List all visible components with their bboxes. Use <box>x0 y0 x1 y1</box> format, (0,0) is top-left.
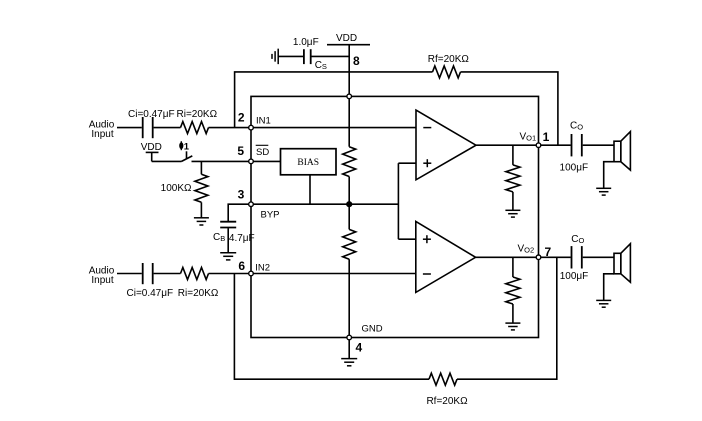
svg-text:Ci=0.47μF: Ci=0.47μF <box>127 288 174 299</box>
svg-text:Input: Input <box>91 275 113 286</box>
svg-text:Input: Input <box>91 129 113 140</box>
svg-text:CB: CB <box>213 232 225 243</box>
svg-text:100μF: 100μF <box>560 271 589 282</box>
svg-text:VO2: VO2 <box>518 244 535 255</box>
svg-text:1.0μF: 1.0μF <box>293 37 319 48</box>
svg-text:5: 5 <box>237 144 244 158</box>
svg-text:SD: SD <box>256 147 269 158</box>
svg-text:Ri=20KΩ: Ri=20KΩ <box>178 288 219 299</box>
svg-text:1: 1 <box>184 141 190 152</box>
svg-text:VDD: VDD <box>141 142 162 153</box>
svg-text:3: 3 <box>238 188 245 202</box>
svg-text:GND: GND <box>362 324 383 335</box>
svg-text:IN2: IN2 <box>255 262 270 273</box>
svg-text:CO: CO <box>571 234 584 245</box>
svg-text:2: 2 <box>238 111 245 125</box>
svg-text:Rf=20KΩ: Rf=20KΩ <box>428 54 470 65</box>
svg-text:VO1: VO1 <box>520 131 537 142</box>
svg-text:100KΩ: 100KΩ <box>161 183 192 194</box>
svg-text:CS: CS <box>315 60 327 71</box>
svg-text:VDD: VDD <box>336 33 357 44</box>
svg-text:Ci=0.47μF: Ci=0.47μF <box>128 109 175 120</box>
svg-text:4: 4 <box>356 341 363 355</box>
svg-text:6: 6 <box>238 259 245 273</box>
svg-text:1: 1 <box>543 130 550 144</box>
svg-text:8: 8 <box>353 54 360 68</box>
svg-text:BYP: BYP <box>261 210 280 221</box>
svg-text:7: 7 <box>545 245 552 259</box>
svg-text:4.7μF: 4.7μF <box>229 233 255 244</box>
svg-text:100μF: 100μF <box>560 163 589 174</box>
svg-text:Ri=20KΩ: Ri=20KΩ <box>177 109 218 120</box>
svg-text:BIAS: BIAS <box>297 158 319 168</box>
svg-text:IN1: IN1 <box>256 116 271 127</box>
svg-text:Rf=20KΩ: Rf=20KΩ <box>426 396 468 407</box>
svg-text:CO: CO <box>570 121 583 132</box>
